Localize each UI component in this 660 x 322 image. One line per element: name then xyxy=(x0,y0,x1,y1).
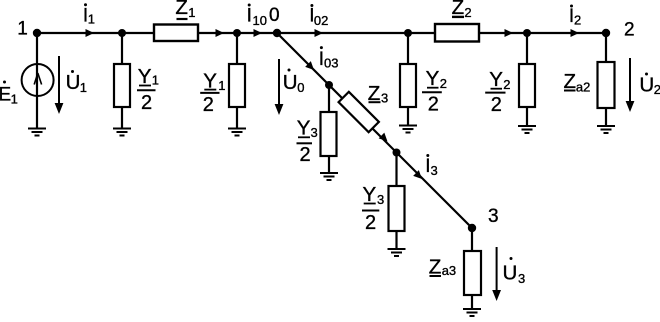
svg-text:Z: Z xyxy=(175,0,188,19)
junction Y1/2 right xyxy=(233,29,241,37)
voltage arrow U2 xyxy=(626,58,635,112)
junction Y2/2 left xyxy=(404,29,412,37)
svg-text:2: 2 xyxy=(365,212,376,234)
svg-text:Y: Y xyxy=(426,67,440,90)
svg-text:0: 0 xyxy=(269,5,280,26)
svg-text:1: 1 xyxy=(88,12,95,27)
svg-text:Y: Y xyxy=(489,68,503,91)
current arrow after Z1 xyxy=(216,29,225,37)
admittance Y2/2 right box xyxy=(519,64,535,107)
wire bus node1 to Z1 xyxy=(37,32,154,34)
svg-text:1: 1 xyxy=(152,73,159,88)
junction Y3/2 upper on diagonal xyxy=(325,81,333,89)
svg-text:a2: a2 xyxy=(576,80,590,95)
label current I02 xyxy=(309,4,328,28)
svg-text:a3: a3 xyxy=(442,263,456,278)
node 3 xyxy=(468,224,476,232)
svg-text:U: U xyxy=(66,71,81,94)
svg-text:2: 2 xyxy=(440,76,447,91)
wire bus Z1 to Z2 xyxy=(198,32,435,34)
label node 3 xyxy=(488,206,499,227)
ground below Y3/2 upper xyxy=(320,173,338,180)
wire shunt Y2/2 right xyxy=(526,33,528,126)
label admittance Y1/2 left xyxy=(137,65,159,114)
svg-text:3: 3 xyxy=(488,206,499,227)
svg-text:2: 2 xyxy=(141,92,152,114)
svg-text:2: 2 xyxy=(503,77,510,92)
voltage arrow U3 xyxy=(492,247,501,301)
label current I03 xyxy=(319,46,339,70)
wire shunt Y2/2 left xyxy=(407,33,409,126)
junction Y3/2 lower on diagonal xyxy=(393,149,401,157)
svg-text:2: 2 xyxy=(624,20,635,41)
label admittance Y2/2 right xyxy=(485,68,510,116)
wire shunt Y1/2 right xyxy=(236,33,238,129)
svg-text:1: 1 xyxy=(218,78,225,93)
current arrow I3 on diagonal xyxy=(413,170,425,182)
label admittance Y3/2 upper xyxy=(297,117,318,167)
current arrow I10 xyxy=(254,29,263,37)
ground below Y1/2 right xyxy=(228,129,246,136)
wire shunt Y1/2 left xyxy=(121,33,123,129)
ground below source E1 xyxy=(28,129,46,136)
voltage source E1 xyxy=(22,64,54,96)
wire node2 through Za2 to ground xyxy=(605,33,607,126)
label impedance Z1 xyxy=(175,0,195,20)
resistor Z1 xyxy=(154,25,198,42)
load impedance Za3 box xyxy=(464,251,481,295)
node 2 xyxy=(602,29,610,37)
svg-text:03: 03 xyxy=(324,56,338,71)
svg-text:Y: Y xyxy=(297,117,311,140)
svg-text:U: U xyxy=(639,74,654,97)
svg-text:I: I xyxy=(247,6,252,27)
svg-text:2: 2 xyxy=(464,5,471,20)
node 1 xyxy=(33,29,41,37)
svg-text:2: 2 xyxy=(491,94,502,116)
wire shunt Y3/2 upper xyxy=(328,85,330,173)
label admittance Y2/2 left xyxy=(422,67,447,116)
label impedance Za3 xyxy=(429,256,456,279)
svg-text:2: 2 xyxy=(428,94,439,116)
svg-text:10: 10 xyxy=(253,13,267,28)
svg-text:1: 1 xyxy=(188,5,195,20)
label voltage U2 xyxy=(639,73,660,98)
svg-text:U: U xyxy=(503,262,518,285)
svg-text:02: 02 xyxy=(314,13,328,28)
svg-text:U: U xyxy=(283,71,298,94)
current arrow I02 xyxy=(315,29,324,37)
ground below Za3 xyxy=(463,309,481,316)
load impedance Za2 box xyxy=(598,62,615,108)
svg-text:2: 2 xyxy=(300,144,311,166)
current arrow I1 xyxy=(86,29,95,37)
voltage arrow U1 xyxy=(55,56,64,114)
wire bus Z2 to node2 xyxy=(479,32,606,34)
label current I10 xyxy=(247,4,267,29)
admittance Y1/2 left box xyxy=(114,64,130,107)
node 0 xyxy=(273,29,281,37)
svg-text:3: 3 xyxy=(518,271,525,286)
label impedance Z2 xyxy=(452,0,472,20)
admittance Y3/2 lower box xyxy=(389,186,405,231)
wire shunt Y3/2 lower xyxy=(395,153,397,250)
svg-text:3: 3 xyxy=(377,192,384,207)
svg-text:3: 3 xyxy=(381,91,388,106)
label current I1 xyxy=(83,3,95,26)
label node 1 xyxy=(17,19,28,40)
current arrow I2 xyxy=(571,29,580,37)
admittance Y2/2 left box xyxy=(400,64,416,107)
label admittance Y1/2 right xyxy=(200,70,225,117)
label node 2 xyxy=(624,20,635,41)
junction Y1/2 left xyxy=(118,29,126,37)
current arrow I03 on diagonal xyxy=(305,61,317,73)
svg-text:2: 2 xyxy=(654,82,660,97)
label current I3 xyxy=(425,154,438,178)
svg-text:1: 1 xyxy=(80,80,87,95)
label impedance Z3 xyxy=(368,82,388,106)
svg-text:1: 1 xyxy=(11,92,18,107)
svg-text:3: 3 xyxy=(431,163,438,178)
label node 0 xyxy=(269,5,280,26)
resistor Z3 (rotated 45deg) xyxy=(339,92,379,132)
label admittance Y3/2 lower xyxy=(362,183,384,234)
admittance Y3/2 upper box xyxy=(321,112,337,156)
svg-text:Y: Y xyxy=(138,65,152,88)
wire node1 down through source to ground xyxy=(36,33,38,129)
label voltage U1 xyxy=(66,70,87,95)
junction Y2/2 right xyxy=(523,29,531,37)
svg-text:2: 2 xyxy=(203,94,214,116)
wire node3 through Za3 to ground xyxy=(471,228,473,309)
ground below Y2/2 left xyxy=(399,126,417,133)
ground below Y1/2 left xyxy=(113,129,131,136)
svg-text:0: 0 xyxy=(297,80,304,95)
svg-text:1: 1 xyxy=(17,19,28,40)
svg-text:Y: Y xyxy=(363,183,377,206)
resistor Z2 xyxy=(435,24,479,42)
svg-text:3: 3 xyxy=(311,125,318,140)
svg-text:E: E xyxy=(0,85,11,106)
label voltage U3 xyxy=(503,257,526,286)
svg-text:2: 2 xyxy=(574,13,581,28)
ground below Y2/2 right xyxy=(518,126,536,133)
label current I2 xyxy=(569,5,581,28)
voltage arrow U0 xyxy=(275,59,284,115)
admittance Y1/2 right box xyxy=(229,64,245,107)
label impedance Za2 xyxy=(564,70,591,95)
current arrow after Z3 on diagonal xyxy=(379,133,391,145)
current arrow after Z2 xyxy=(505,29,514,37)
wire diagonal node0 to node3 xyxy=(277,33,472,228)
label source E1 xyxy=(0,81,18,107)
ground below Za2 xyxy=(597,126,615,133)
label voltage U0 xyxy=(283,69,305,96)
ground below Y3/2 lower xyxy=(388,249,406,256)
